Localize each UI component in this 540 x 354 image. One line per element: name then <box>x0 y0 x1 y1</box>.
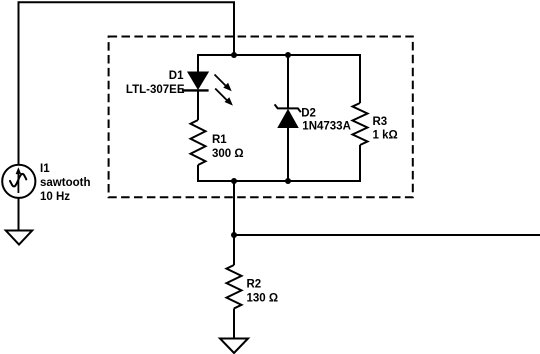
svg-text:I1: I1 <box>40 163 50 175</box>
svg-text:1 kΩ: 1 kΩ <box>373 130 398 142</box>
svg-text:R3: R3 <box>373 116 388 128</box>
svg-text:R1: R1 <box>212 134 227 146</box>
svg-text:D1: D1 <box>169 70 184 82</box>
svg-text:1N4733A: 1N4733A <box>302 121 351 133</box>
svg-text:10 Hz: 10 Hz <box>40 191 70 203</box>
svg-text:300 Ω: 300 Ω <box>212 148 244 160</box>
svg-text:LTL-307EE: LTL-307EE <box>126 84 185 96</box>
svg-text:D2: D2 <box>301 108 316 120</box>
svg-text:R2: R2 <box>247 279 262 291</box>
svg-text:sawtooth: sawtooth <box>40 177 90 189</box>
svg-text:130 Ω: 130 Ω <box>247 293 279 305</box>
